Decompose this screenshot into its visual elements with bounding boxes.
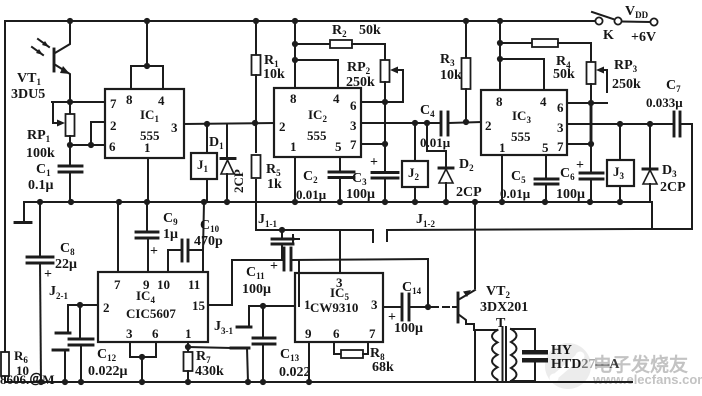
svg-text:2CP: 2CP [456, 185, 482, 200]
svg-text:3: 3 [371, 297, 378, 312]
relay J1 [191, 124, 217, 202]
svg-text:1: 1 [185, 326, 192, 341]
node top-rail junction dots [67, 18, 73, 24]
wire IC5 pin1 node [249, 303, 295, 309]
resistor R1 10k [252, 21, 286, 123]
svg-text:4: 4 [158, 93, 165, 108]
svg-text:5: 5 [335, 139, 342, 154]
svg-text:2: 2 [103, 300, 110, 315]
svg-text:10: 10 [157, 277, 170, 292]
op-amp U1: timer IC1 555 [105, 89, 184, 158]
resistor R2 50k [295, 23, 385, 60]
svg-text:7: 7 [369, 326, 376, 341]
svg-text:HY: HY [551, 343, 572, 358]
diode D2 2CP [427, 123, 482, 202]
svg-text:10k: 10k [263, 67, 285, 82]
svg-text:+: + [270, 259, 278, 274]
svg-text:50k: 50k [553, 67, 575, 82]
capacitor C8 22u [27, 202, 77, 382]
wire IC1 pin3 output run [184, 120, 274, 127]
svg-text:100μ: 100μ [346, 187, 375, 202]
svg-text:2CP: 2CP [231, 169, 246, 193]
watermark elecfans text [592, 353, 702, 387]
wire junction to IC1 pin6 [70, 144, 105, 146]
resistor R3 10k [440, 21, 471, 122]
op-amp U2: timer IC2 555 [274, 88, 361, 157]
capacitor C3 100u [346, 144, 398, 202]
capacitor C12 0.022u [69, 305, 128, 382]
wire IC2 pin1 to ground bus [294, 157, 296, 202]
relay J2 [402, 123, 428, 202]
relay contact J3-1 [214, 306, 251, 382]
svg-text:6: 6 [109, 139, 116, 154]
svg-text:1μ: 1μ [163, 227, 178, 242]
svg-text:0.022: 0.022 [279, 365, 311, 380]
svg-text:7: 7 [350, 137, 357, 152]
svg-text:+: + [576, 158, 584, 173]
svg-text:2: 2 [485, 118, 492, 133]
svg-text:250k: 250k [346, 75, 375, 90]
wire IC2 pin3 run to IC3 pin2 [361, 119, 481, 126]
svg-text:CW9310: CW9310 [310, 300, 358, 315]
svg-text:3DX201: 3DX201 [480, 300, 528, 315]
svg-text:50k: 50k [359, 23, 381, 38]
wire IC2 pin6 to RP2 bottom [361, 99, 403, 105]
resistor R7 430k [184, 342, 225, 382]
wire IC3 pin1 to ground bus [501, 155, 503, 202]
svg-text:555: 555 [307, 128, 327, 143]
wire output run J1-2 row [256, 124, 692, 242]
wire emitter junction to IC1 pin7 [52, 101, 105, 103]
svg-text:1: 1 [499, 140, 506, 155]
light arrows into VT1 [32, 47, 43, 55]
svg-text:0.01μ: 0.01μ [500, 186, 531, 201]
relay contact J2-1 [49, 284, 70, 382]
diode D1 2CP [209, 124, 246, 202]
capacitor C11 100u [232, 248, 428, 306]
svg-text:T: T [496, 316, 506, 331]
node pin2 jog junction [88, 142, 94, 148]
wire IC3 pin6 to RP3 bottom [567, 100, 607, 106]
wire IC1 pins 8,4 to top rail [131, 21, 163, 89]
svg-text:0.01μ: 0.01μ [296, 187, 327, 202]
svg-text:6: 6 [333, 326, 340, 341]
potentiometer RP2 250k [346, 60, 403, 102]
svg-text:7: 7 [110, 96, 117, 111]
svg-text:6: 6 [557, 100, 564, 115]
relay contact J1-1 [258, 212, 299, 259]
svg-text:470p: 470p [194, 234, 223, 249]
svg-text:+: + [44, 267, 52, 282]
op-amp U4: IC4 CIC5607 [98, 272, 208, 342]
svg-text:250k: 250k [612, 77, 641, 92]
wire IC4 pin15 to C11 [208, 260, 232, 305]
svg-text:HTD27—A: HTD27—A [551, 357, 620, 372]
svg-text:+6V: +6V [631, 30, 656, 45]
svg-text:8: 8 [126, 92, 133, 107]
capacitor C9 1u [136, 202, 178, 272]
resistor R4 50k [500, 39, 591, 82]
transistor VT1 phototransistor 3DU5 [11, 21, 70, 102]
svg-text:1: 1 [290, 139, 297, 154]
svg-text:6: 6 [350, 98, 357, 113]
wire IC3 pin7 to C6 node [567, 103, 594, 147]
capacitor C13 0.022 [253, 306, 311, 382]
wire VT2 emitter to transformer primary [474, 330, 489, 382]
capacitor C4 0.01u [420, 103, 451, 150]
resistor R8 68k [334, 342, 394, 375]
svg-text:100μ: 100μ [556, 187, 585, 202]
wire IC5 pin9 to bottom rail [308, 342, 310, 382]
svg-text:10k: 10k [440, 68, 462, 83]
svg-text:430k: 430k [195, 364, 224, 379]
svg-text:www.elecfans.com: www.elecfans.com [592, 372, 702, 387]
wire R7 top to J3-1 bar [188, 347, 231, 348]
switch K [592, 12, 658, 43]
svg-text:3: 3 [350, 118, 357, 133]
wire IC4 pin7 to ground bus [117, 202, 119, 272]
svg-text:3: 3 [171, 120, 178, 135]
svg-text:100μ: 100μ [242, 282, 271, 297]
svg-text:9: 9 [305, 326, 312, 341]
wire jog to IC1 pin2 [91, 122, 105, 145]
svg-text:K: K [603, 28, 614, 43]
buzzer HY [522, 329, 548, 381]
resistor R6 [1, 348, 29, 378]
svg-text:2CP: 2CP [660, 180, 686, 195]
capacitor C1 0.1u [28, 145, 82, 202]
svg-text:+: + [150, 244, 158, 259]
svg-text:3: 3 [126, 326, 133, 341]
transistor VT2 3DX201 [432, 284, 528, 330]
wire IC2 pin8 to top rail, pin4 tie [292, 21, 338, 88]
svg-text:15: 15 [192, 298, 206, 313]
wire top positive rail [5, 18, 599, 24]
svg-text:+: + [370, 155, 378, 170]
svg-text:6: 6 [152, 326, 159, 341]
svg-text:22μ: 22μ [55, 257, 77, 272]
watermark elecfans logo circle [545, 343, 591, 389]
wire IC4 pin2 [68, 302, 98, 308]
svg-text:7: 7 [114, 277, 121, 292]
ground [15, 202, 31, 223]
svg-text:2: 2 [110, 118, 117, 133]
wire ground bus down to VT2 collector [474, 202, 476, 288]
svg-text:4: 4 [333, 91, 340, 106]
node VDD terminal +6V [625, 4, 656, 45]
node VT1 emitter junction [67, 99, 73, 105]
svg-text:100k: 100k [26, 146, 55, 161]
svg-text:1: 1 [304, 297, 311, 312]
svg-text:0.01μ: 0.01μ [420, 135, 451, 150]
svg-text:100μ: 100μ [394, 321, 423, 336]
wire IC4 pins 3,6 to bottom rail [130, 342, 156, 382]
wire IC3 pin3 output [567, 121, 674, 127]
diode D3 2CP [643, 124, 686, 202]
wire bottom rail [5, 379, 632, 385]
transformer T [474, 316, 535, 382]
wire left frame vertical [4, 21, 6, 382]
op-amp U5: IC5 CW9310 [295, 273, 383, 342]
capacitor C5 0.01u on pin5 [500, 155, 558, 202]
capacitor C7 0.033u [646, 78, 692, 136]
svg-text:3DU5: 3DU5 [11, 87, 45, 102]
capacitor C2 0.01u on pin5 [296, 157, 354, 202]
svg-text:0.033μ: 0.033μ [646, 95, 683, 110]
op-amp U3: timer IC3 555 [481, 90, 567, 155]
resistor R5 1k [252, 123, 283, 192]
potentiometer RP3 250k [587, 58, 642, 103]
capacitor C14 100u [383, 280, 428, 336]
svg-text:3: 3 [557, 120, 564, 135]
potentiometer RP1 100k [26, 102, 75, 161]
wire C11 run down to C14/VT2 base node [425, 259, 431, 310]
node RP1 bottom junction [67, 142, 73, 148]
svg-text:5: 5 [542, 140, 549, 155]
wire ground bus (middle rail) [24, 199, 652, 228]
wire IC3 pin8 to top rail, pin4 tie [497, 21, 544, 90]
wire IC1 pin1 to ground bus [147, 158, 149, 202]
svg-text:0.022μ: 0.022μ [88, 364, 128, 379]
svg-text:11: 11 [188, 277, 200, 292]
svg-text:7: 7 [557, 139, 564, 154]
capacitor C10 470p [168, 202, 223, 272]
svg-text:8606.＠M: 8606.＠M [0, 372, 55, 387]
svg-text:68k: 68k [372, 360, 394, 375]
svg-text:0.1μ: 0.1μ [28, 178, 54, 193]
svg-text:2: 2 [279, 119, 286, 134]
relay J3 [607, 124, 634, 202]
svg-text:1: 1 [144, 140, 151, 155]
wire IC5 top pin to output run [339, 230, 341, 273]
svg-text:8: 8 [496, 94, 503, 109]
wire R5 bottom extension to run [255, 180, 257, 230]
svg-text:4: 4 [540, 94, 547, 109]
svg-text:CIC5607: CIC5607 [126, 306, 176, 321]
wire IC2 pin7 to C3 node [361, 102, 388, 147]
svg-text:1k: 1k [267, 177, 282, 192]
svg-text:555: 555 [511, 129, 531, 144]
capacitor C6 100u [556, 144, 603, 202]
svg-text:8: 8 [290, 91, 297, 106]
